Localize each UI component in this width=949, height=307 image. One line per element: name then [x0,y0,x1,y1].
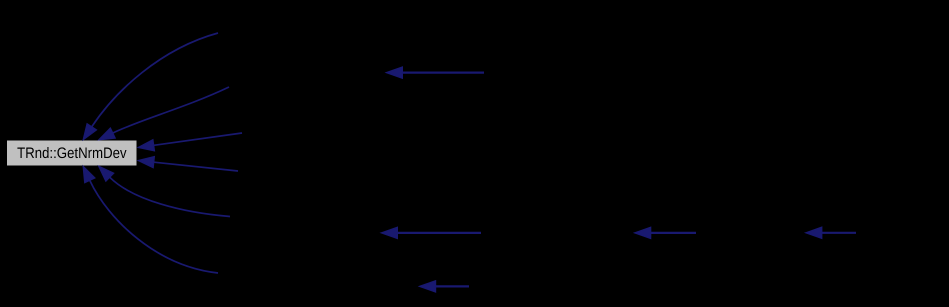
horizontal arrow H1 (top middle) [386,67,484,79]
edge 5 (bottom inner curve) [99,166,231,217]
horizontal arrow H4 (far right) [805,227,856,239]
edge 3 (straight upper-right) [138,133,242,151]
edge 2 [99,87,230,140]
horizontal arrow H2 (middle) [381,227,481,239]
horizontal arrow H3 [634,227,696,239]
edge 6 (bottom outer curve) [83,166,218,273]
horizontal arrow H5 (bottom) [419,281,469,293]
node TRnd::GetNrmDev (box) [7,140,138,166]
edge 4 (straight lower-right) [138,156,238,171]
edge 1 (caller top) [83,33,218,140]
